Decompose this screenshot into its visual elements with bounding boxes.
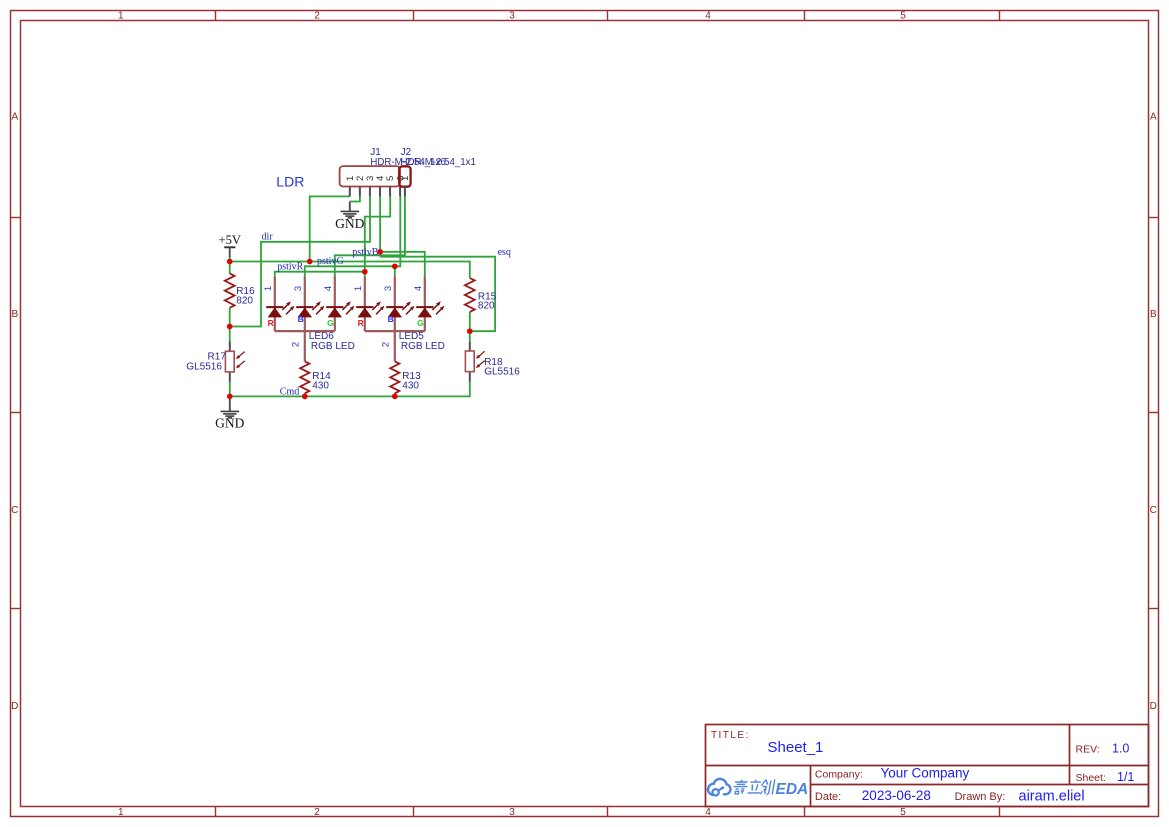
svg-text:1: 1 [118,807,124,818]
photoresistor R17 GL5516 [186,341,244,382]
node pstivB [352,247,378,258]
wire +5V to R16 [229,256,231,273]
junction esq/R15-R18 [467,328,473,334]
wire R16 to R17 [229,308,231,342]
svg-text:Drawn By:: Drawn By: [955,791,1006,803]
svg-text:820: 820 [236,295,253,306]
svg-text:pstivG: pstivG [317,256,344,267]
junction pstivR/LED5 [362,269,368,275]
svg-text:B: B [388,314,394,324]
svg-text:airam.eliel: airam.eliel [1019,788,1085,804]
svg-text:pstivR: pstivR [277,261,303,272]
logo EasyEDA cloud [708,779,730,796]
svg-text:GND: GND [335,216,364,231]
svg-text:5: 5 [900,10,906,21]
junction +5V/R16 [227,259,233,265]
svg-text:Cmd: Cmd [280,387,299,398]
title block text [711,730,1134,804]
node pstivR [277,261,303,272]
svg-text:3: 3 [509,807,515,818]
svg-text:5: 5 [900,807,906,818]
junction Cmd/R13 [392,394,398,400]
svg-text:Sheet_1: Sheet_1 [768,739,824,756]
wire R15 bottom [469,312,471,342]
svg-text:G: G [417,318,424,328]
svg-text:Date:: Date: [815,791,841,803]
wire net esq (pin4 to R15/R18 node) [380,257,495,332]
svg-text:pstivB: pstivB [352,247,378,258]
ground GND (bottom left) [215,396,244,430]
svg-text:430: 430 [312,380,329,391]
svg-text:RGB LED: RGB LED [401,341,445,352]
wire J1 pin1 to +5V rail (pstivG) [310,196,350,261]
svg-text:Sheet:: Sheet: [1076,772,1106,784]
junction Cmd/R14 [302,394,308,400]
svg-text:GND: GND [215,416,244,431]
text LDR [276,174,304,190]
svg-text:4: 4 [323,286,334,291]
svg-text:3: 3 [293,286,304,291]
node pstivG [317,256,344,267]
wire J2 pin1 to LED6 pin4 [335,196,405,276]
svg-text:2: 2 [314,807,320,818]
svg-text:EDA: EDA [776,781,809,798]
resistor R13 [390,361,421,396]
svg-text:C: C [1150,505,1157,516]
node dir [262,232,274,243]
svg-text:G: G [327,318,334,328]
connector J2 [399,147,476,196]
logo 嘉立创EDA text [732,779,775,794]
svg-text:esq: esq [498,247,511,258]
svg-text:GL5516: GL5516 [186,361,222,372]
svg-text:1: 1 [118,10,124,21]
connector J1 [340,147,446,196]
svg-text:1: 1 [400,176,411,181]
svg-text:GL5516: GL5516 [484,366,520,377]
svg-text:820: 820 [478,301,495,312]
svg-text:LDR: LDR [276,174,304,190]
svg-text:HDR-M-2.54_1x1: HDR-M-2.54_1x1 [401,157,476,168]
svg-text:1/1: 1/1 [1117,770,1134,784]
wire J1 pin5 to LED5 pin1 (pstivR net) [365,196,390,276]
svg-text:A: A [1150,112,1157,123]
svg-text:REV:: REV: [1076,743,1100,755]
RGB LED LED6 [263,276,355,361]
node Cmd [280,387,299,398]
svg-text:2: 2 [314,10,320,21]
svg-text:R: R [268,318,274,328]
ground GND (connector) [335,202,364,232]
junction pstivB [377,249,383,255]
svg-text:Company:: Company: [815,768,863,780]
svg-text:D: D [1150,701,1157,712]
wire LED5 pin3 tap [394,266,396,276]
svg-text:430: 430 [402,380,419,391]
wire pstivB to LED5 pin4 [380,252,425,277]
svg-text:3: 3 [509,10,515,21]
wire R18 bottom to Cmd rail [230,382,470,397]
svg-text:2: 2 [291,342,302,347]
resistor R15 [465,278,497,312]
resistor R16 [225,273,255,307]
wire J1 pin6 to LED6 pin3 (B net) [305,196,401,276]
svg-text:Your Company: Your Company [881,766,970,781]
svg-text:B: B [11,309,18,320]
title block [706,725,1149,807]
svg-text:A: A [11,112,18,123]
RGB LED LED5 [353,276,445,361]
svg-text:1: 1 [353,286,364,291]
svg-text:2023-06-28: 2023-06-28 [862,788,931,803]
junction B net/LED5 [392,263,398,269]
svg-text:3: 3 [383,286,394,291]
svg-text:D: D [11,701,18,712]
svg-text:4: 4 [413,286,424,291]
svg-text:+5V: +5V [219,233,241,247]
wire J1 pin2 to GND [350,196,360,202]
svg-text:C: C [11,505,18,516]
svg-text:B: B [1150,309,1157,320]
power flag +5V [219,233,241,257]
logo EDA text [776,781,809,798]
wire R17 bottom [229,382,231,397]
svg-text:4: 4 [705,807,711,818]
svg-text:R: R [358,318,364,328]
svg-text:TITLE:: TITLE: [711,730,750,741]
svg-text:2: 2 [381,342,392,347]
svg-text:4: 4 [705,10,711,21]
node esq [498,247,511,258]
photoresistor R18 GL5516 [465,342,520,382]
svg-text:1.0: 1.0 [1112,742,1129,756]
wire J1 pin4 down (pstivB) [379,196,381,257]
junction pstivG [307,259,313,265]
junction Cmd/R17 [227,394,233,400]
svg-text:dir: dir [262,232,274,243]
svg-text:B: B [298,314,304,324]
junction dir/R16-R17 [227,324,233,330]
svg-text:RGB LED: RGB LED [311,341,355,352]
wire +5V rail [230,262,470,279]
wire pstivR LED6 pin1 to LED5 pin1 [275,272,365,277]
resistor R14 [300,361,331,396]
wire net dir (R16 bottom to J1 pin3) [230,196,370,327]
svg-text:1: 1 [263,286,274,291]
